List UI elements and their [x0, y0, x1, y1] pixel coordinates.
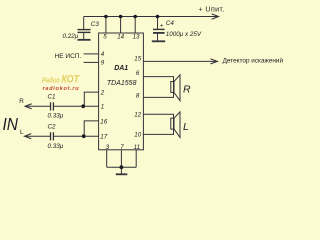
svg-text:IN: IN — [3, 114, 19, 134]
svg-text:8: 8 — [136, 93, 140, 100]
svg-text:13: 13 — [133, 34, 140, 41]
svg-text:TDA1558: TDA1558 — [107, 80, 137, 87]
svg-text:radiokot.ru: radiokot.ru — [43, 86, 80, 92]
svg-text:14: 14 — [117, 34, 124, 41]
svg-text:3: 3 — [106, 144, 110, 151]
svg-text:11: 11 — [134, 144, 140, 151]
svg-text:C1: C1 — [48, 94, 56, 101]
svg-text:1000μ x 25V: 1000μ x 25V — [166, 31, 202, 38]
svg-text:6: 6 — [136, 70, 140, 77]
svg-text:R: R — [183, 84, 191, 96]
svg-text:C4: C4 — [166, 20, 175, 27]
svg-text:9: 9 — [101, 60, 105, 67]
svg-text:16: 16 — [100, 118, 107, 125]
svg-text:17: 17 — [100, 133, 107, 140]
svg-text:4: 4 — [101, 51, 105, 58]
svg-text:0.33μ: 0.33μ — [48, 143, 64, 150]
svg-text:2: 2 — [100, 89, 105, 96]
svg-text:7: 7 — [120, 144, 124, 151]
svg-text:R: R — [19, 98, 24, 105]
svg-text:НЕ ИСП.: НЕ ИСП. — [55, 53, 82, 60]
svg-text:12: 12 — [134, 112, 141, 119]
svg-text:+ Uпит.: + Uпит. — [199, 7, 225, 14]
svg-text:10: 10 — [134, 132, 141, 139]
svg-text:1: 1 — [101, 103, 104, 110]
svg-text:DA1: DA1 — [114, 65, 128, 72]
svg-text:0.33μ: 0.33μ — [48, 113, 64, 120]
svg-text:L: L — [20, 129, 24, 136]
svg-text:15: 15 — [134, 56, 141, 63]
svg-text:5: 5 — [103, 34, 107, 41]
svg-text:0.22μ: 0.22μ — [63, 33, 79, 40]
svg-text:C2: C2 — [48, 124, 57, 131]
svg-text:+: + — [160, 24, 164, 30]
svg-text:L: L — [183, 121, 189, 133]
svg-text:C3: C3 — [91, 21, 100, 28]
svg-text:Детектор искажений: Детектор искажений — [223, 56, 284, 64]
svg-text:Радио КОТ: Радио КОТ — [42, 74, 80, 86]
